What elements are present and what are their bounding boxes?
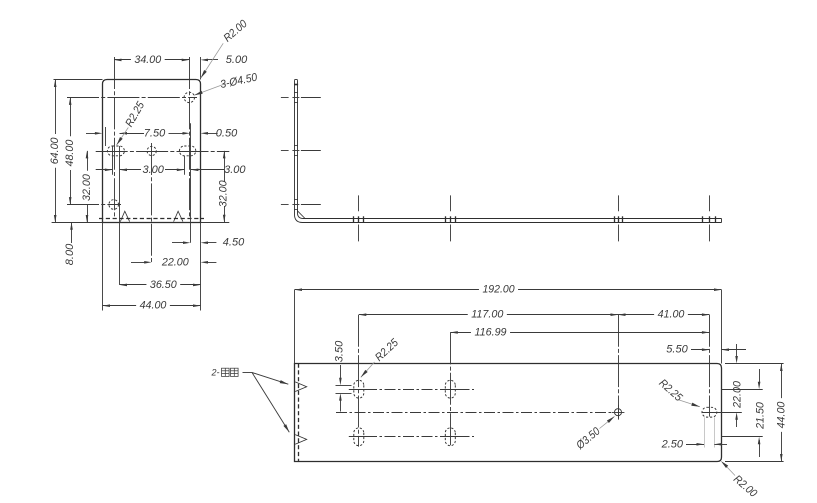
svg-text:8.00: 8.00	[64, 243, 76, 265]
svg-text:5.50: 5.50	[666, 344, 688, 356]
svg-text:117.00: 117.00	[471, 309, 504, 321]
svg-text:36.50: 36.50	[150, 279, 178, 291]
svg-text:48.00: 48.00	[64, 139, 76, 167]
svg-text:44.00: 44.00	[140, 300, 168, 312]
svg-text:22.00: 22.00	[161, 256, 189, 268]
svg-text:4.50: 4.50	[223, 237, 245, 249]
svg-text:21.50: 21.50	[755, 401, 767, 429]
svg-text:41.00: 41.00	[658, 309, 686, 321]
svg-text:3.00: 3.00	[224, 164, 246, 176]
svg-text:64.00: 64.00	[49, 137, 61, 165]
svg-text:192.00: 192.00	[482, 284, 515, 296]
svg-text:7.50: 7.50	[144, 127, 166, 139]
svg-text:3.50: 3.50	[334, 340, 346, 362]
svg-text:2.50: 2.50	[661, 438, 684, 450]
svg-text:22.00: 22.00	[732, 380, 744, 408]
svg-text:0.50: 0.50	[216, 127, 238, 139]
svg-text:32.00: 32.00	[81, 173, 93, 201]
svg-text:3.00: 3.00	[143, 164, 165, 176]
svg-text:44.00: 44.00	[775, 401, 787, 429]
svg-text:34.00: 34.00	[134, 54, 162, 66]
svg-text:116.99: 116.99	[474, 326, 506, 338]
svg-text:2-: 2-	[210, 368, 219, 378]
svg-text:32.00: 32.00	[218, 180, 230, 208]
svg-text:5.00: 5.00	[226, 54, 248, 66]
